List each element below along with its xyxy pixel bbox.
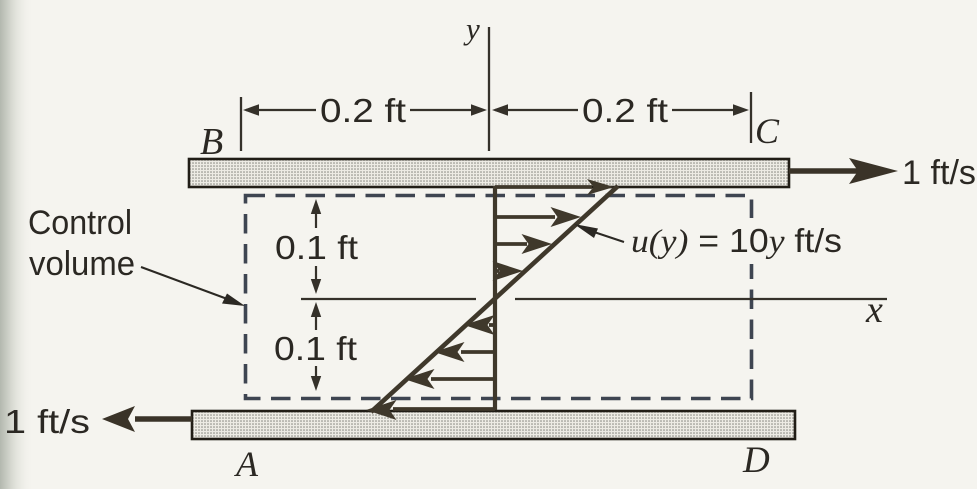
x axis line left segment [301, 298, 476, 300]
svg-text:1 ft/s: 1 ft/s [4, 403, 90, 440]
top plate [189, 159, 789, 187]
0.2 ft dimension left: arrow + line [243, 104, 487, 116]
svg-text:y: y [463, 11, 480, 46]
svg-text:A: A [234, 444, 259, 484]
svg-text:0.2 ft: 0.2 ft [320, 92, 406, 129]
svg-text:0.2 ft: 0.2 ft [582, 92, 668, 129]
svg-text:u(y) = 10y ft/s: u(y) = 10y ft/s [631, 222, 842, 260]
velocity arrow right y=271 (short) [493, 261, 524, 281]
top plate velocity arrow 1 ft/s [789, 158, 898, 184]
svg-text:volume: volume [29, 245, 135, 283]
svg-text:C: C [755, 111, 780, 151]
0.2 ft dimension right: arrow + line [492, 104, 749, 116]
background patch behind u(y) label (covers dashed line) [626, 218, 848, 264]
svg-text:0.1 ft: 0.1 ft [274, 330, 357, 367]
control volume dashed boundary [246, 196, 752, 399]
velocity arrow left y=325 (short) [464, 315, 495, 335]
Control volume leader arrow [141, 267, 245, 306]
0.1 ft dimension upper [311, 199, 321, 294]
x axis line right segment [515, 298, 887, 300]
0.2 ft dimension left: tick at B [240, 97, 242, 151]
velocity arrow left y=409 (bottom) [366, 400, 495, 420]
svg-text:D: D [742, 440, 770, 481]
0.2 ft dimension right: tick at C [750, 92, 752, 143]
svg-text:1 ft/s: 1 ft/s [902, 154, 976, 192]
y axis line [488, 27, 490, 151]
velocity profile diagonal u(y) [371, 186, 618, 412]
velocity arrow left y=379 [404, 369, 495, 389]
u(y) equation leader arrow [574, 224, 624, 242]
velocity arrow right y=188 (top) [495, 179, 614, 195]
svg-text:x: x [865, 289, 883, 331]
svg-text:B: B [200, 121, 223, 163]
velocity arrow right y=244 [495, 234, 552, 254]
bottom plate [192, 411, 795, 439]
0.1 ft dimension lower [311, 302, 321, 391]
velocity arrow right y=217 [495, 207, 581, 227]
velocity profile center line [493, 186, 497, 410]
svg-text:Control: Control [28, 204, 132, 242]
velocity arrow left y=352 [434, 342, 495, 362]
scan edge shading band at left [0, 0, 34, 489]
svg-text:0.1 ft: 0.1 ft [275, 229, 358, 266]
bottom plate velocity arrow 1 ft/s [102, 406, 192, 432]
